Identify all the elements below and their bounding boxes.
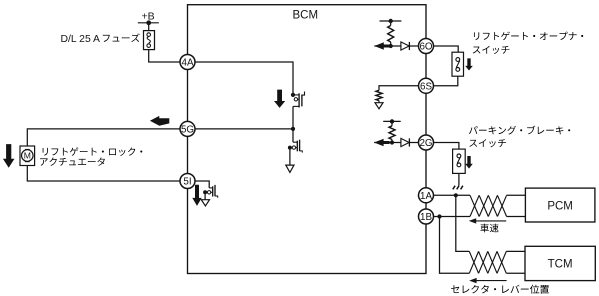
label liftgate lock actuator line1 (43, 148, 48, 156)
svg-text:M: M (24, 151, 31, 161)
wire Q1 source to 5G net (292, 106, 294, 128)
resistor R1 pull-up at 6O (390, 21, 392, 26)
node 5I (180, 174, 195, 189)
label parking brake switch line1 (469, 126, 478, 134)
junction dot 5G net (291, 127, 295, 131)
vehicle speed signal arrow (471, 220, 507, 222)
junction dot on 1B wire (437, 214, 441, 218)
svg-text:PCM: PCM (547, 200, 573, 212)
diode D2 at 2G (401, 138, 409, 146)
wire Q2 to ground (289, 148, 291, 166)
wire 2G to parking brake switch (434, 143, 459, 150)
transistor Q2 (low-side FET to ground) (293, 141, 297, 143)
diode D1 at 6O (401, 42, 409, 50)
svg-text:2G: 2G (419, 138, 432, 149)
chassis ground below SW2 (453, 186, 455, 190)
transistor Q3 (low-side FET to ground) (209, 187, 213, 189)
svg-text:6S: 6S (420, 81, 432, 92)
label vehicle speed (480, 224, 489, 233)
wire 1A branch down to TCM pair (456, 195, 470, 251)
twisted pair to TCM (469, 251, 478, 273)
wire +B to fuse (148, 23, 150, 31)
signal arrow left at 2G (374, 139, 390, 146)
svg-text:4A: 4A (182, 58, 194, 69)
fuse F1 D/L 25A (144, 31, 155, 50)
wire fuse to 4A (149, 50, 188, 62)
wire 2G input (374, 142, 418, 144)
svg-text:BCM: BCM (293, 10, 319, 22)
wire 6O input (374, 45, 418, 47)
selector lever position signal arrow (471, 280, 507, 282)
press arrow at SW2 (465, 156, 473, 169)
wire SW2 to chassis ground (458, 173, 460, 185)
TCM module box (525, 246, 595, 280)
wire pair to PCM pin2 (507, 216, 526, 218)
svg-text:5I: 5I (183, 177, 191, 188)
junction dot Q1 drain (291, 93, 295, 97)
node 5G (180, 121, 195, 136)
pull-up tick bar at 2G (383, 120, 401, 122)
node 1B (419, 209, 434, 224)
label liftgate lock actuator line2 (40, 158, 48, 165)
pull-up tick bar at 6O (380, 20, 402, 22)
wire actuator to 5I (27, 166, 187, 182)
transistor Q1 (output FET high-side) (293, 94, 299, 96)
resistor R2 at 6S (376, 90, 382, 100)
current arrow at Q1 (274, 90, 285, 108)
node 1A (419, 188, 434, 203)
current arrow at Q3 (192, 185, 201, 206)
wire 6S to R2 (379, 86, 419, 91)
ground (open triangle) below Q3 (201, 200, 209, 206)
parking brake switch SW2 (453, 149, 466, 173)
svg-text:5G: 5G (181, 124, 194, 135)
svg-text:1A: 1A (420, 191, 432, 202)
ground (open triangle) below Q2 (286, 165, 294, 172)
label liftgate opener switch line2 (473, 47, 481, 54)
wire 5I to Q3 (188, 181, 210, 188)
label selector lever position (451, 285, 459, 293)
wire 4A to Q1 drain (188, 62, 294, 95)
label parking brake switch line2 (469, 140, 477, 147)
wire 5G to junction (188, 128, 294, 130)
wire Q3 to ground (204, 192, 206, 199)
motor actuator M1 liftgate lock (20, 146, 35, 166)
PCM module box (525, 188, 595, 222)
press arrow at SW1 (465, 58, 473, 70)
wire 1B branch down to TCM pair (440, 217, 470, 274)
node 2G (419, 135, 434, 150)
wire 1B to twisted pair (434, 216, 471, 218)
wire 5G to actuator (27, 129, 187, 146)
node 6S (419, 78, 434, 93)
ground (open triangle) below R2 (375, 103, 383, 109)
wire junction to Q2 (292, 129, 294, 142)
junction dot on 1A wire (454, 193, 458, 197)
wire opener switch to 6S (434, 76, 458, 86)
liftgate opener switch SW1 (452, 52, 464, 76)
junction dot R1-wire (389, 44, 393, 48)
current arrow at actuator (3, 144, 15, 168)
resistor R3 pull-up at 2G (391, 121, 393, 125)
wire pair to TCM pin1 (506, 250, 525, 252)
label liftgate opener switch line1 (474, 32, 479, 40)
junction dot R3-wire (390, 140, 394, 144)
node 4A (180, 55, 195, 70)
wire pair to TCM pin2 (506, 272, 525, 274)
BCM module box (188, 5, 427, 274)
signal arrow left at 6O (374, 42, 390, 49)
wire 6O to opener switch (434, 46, 459, 52)
svg-text:1B: 1B (420, 212, 432, 223)
signal arrow left on 5G wire (150, 116, 169, 126)
node 6O (419, 39, 434, 54)
wire 1A to twisted pair (434, 194, 471, 196)
svg-text:TCM: TCM (548, 259, 573, 271)
wire pair to PCM pin1 (507, 194, 526, 196)
twisted pair to PCM (470, 195, 479, 216)
svg-text:D/L 25 A: D/L 25 A (61, 34, 101, 45)
svg-text:6O: 6O (419, 42, 432, 53)
